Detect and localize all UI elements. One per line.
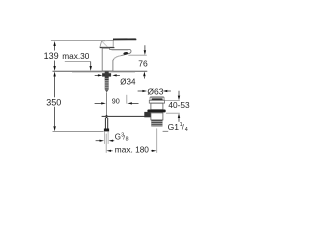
- spout top inner line: [112, 49, 129, 51]
- svg-text:G: G: [115, 133, 121, 142]
- max180 left extension line: [105, 134, 107, 153]
- svg-text:max.30: max.30: [62, 51, 90, 61]
- handle/body seam: [100, 47, 115, 49]
- dimension 139 bottom arrow: [53, 66, 55, 71]
- dimension 350 bottom arrow: [53, 126, 55, 131]
- 40-53 bottom reference line: [166, 112, 180, 114]
- hose-end reference line: [53, 130, 104, 132]
- lever bar: [113, 38, 136, 40]
- extension line faucet top level: [51, 40, 105, 42]
- dimension 350 top arrow: [53, 72, 55, 77]
- dimension 90 left arrow: [95, 102, 102, 104]
- svg-text:/: /: [182, 125, 184, 132]
- dimension 90 right arrow: [127, 102, 132, 104]
- dimension 139 line: [54, 46, 56, 67]
- faucet body and spout: [102, 48, 131, 71]
- waste plug dome shadow band: [152, 98, 163, 100]
- dimension D34 left arrow: [95, 74, 99, 76]
- svg-text:Ø63: Ø63: [147, 86, 163, 96]
- G3/8 left arrow: [96, 140, 100, 142]
- spout outlet extension line: [128, 54, 147, 56]
- dimension 40-53 bottom arrow: [178, 113, 180, 118]
- dimension D63 right arrow: [163, 90, 168, 92]
- waste rod holder: [144, 112, 151, 117]
- shank taper: [105, 90, 109, 93]
- 40-53 top reference line: [165, 99, 180, 101]
- deck line: [53, 70, 148, 72]
- hose lines: [104, 118, 106, 129]
- aerator: [123, 52, 128, 55]
- pop-up vertical rod: [106, 93, 108, 116]
- dimension 40-53 top arrow: [178, 91, 180, 96]
- svg-text:G1: G1: [168, 122, 180, 132]
- max.30 arrow to deck: [90, 62, 92, 67]
- svg-text:4: 4: [185, 127, 188, 133]
- svg-text:8: 8: [126, 137, 129, 143]
- spout inner curve: [113, 56, 121, 60]
- dimension 139 top arrow: [53, 41, 55, 46]
- svg-text:76: 76: [138, 58, 148, 68]
- threaded shank: [105, 71, 109, 80]
- dimension 76 top arrow: [144, 45, 146, 50]
- hose extension lines: [103, 132, 105, 144]
- waste flange ring: [149, 100, 164, 103]
- svg-text:139: 139: [44, 51, 59, 61]
- max180 right extension line: [156, 128, 158, 152]
- spout axis extension line: [126, 95, 128, 104]
- mounting nut below deck: [102, 73, 111, 76]
- dimension max180 left arrow: [106, 150, 111, 152]
- dimension D34 right arrow: [112, 74, 116, 76]
- svg-text:350: 350: [46, 97, 61, 107]
- dimension 76 bottom arrow: [143, 72, 145, 77]
- svg-text:90: 90: [112, 96, 120, 105]
- waste upper body: [151, 103, 163, 110]
- waste threaded tail: [151, 120, 162, 127]
- rod knot: [105, 115, 109, 119]
- G1 1/4 leader line: [163, 130, 169, 132]
- dimension 350 line: [54, 77, 56, 127]
- svg-text:40-53: 40-53: [168, 100, 190, 110]
- waste plug dome: [150, 97, 164, 100]
- svg-text:Ø34: Ø34: [120, 78, 136, 87]
- pop-up horizontal rod: [102, 115, 146, 117]
- max.30 underline leader: [65, 61, 91, 63]
- waste clamp band: [147, 110, 165, 113]
- deck underside hint: [72, 72, 135, 74]
- waste plug top edge: [150, 96, 163, 98]
- dimension max180 right arrow: [151, 150, 153, 152]
- faucet handle grip: [100, 40, 113, 47]
- svg-text:max. 180: max. 180: [115, 145, 150, 155]
- handle grip crease: [102, 41, 108, 47]
- hose connector G3/8: [104, 129, 109, 132]
- waste lower body: [151, 113, 163, 120]
- dimension D63 left arrow: [138, 90, 143, 92]
- G3/8 right arrow: [109, 140, 114, 142]
